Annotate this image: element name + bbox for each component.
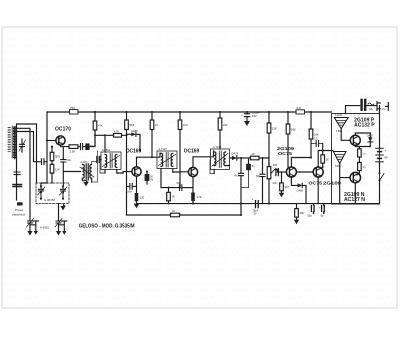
svg-text:1K: 1K: [252, 152, 255, 156]
node R18 out: [261, 157, 263, 159]
svg-text:100μF: 100μF: [252, 111, 260, 115]
resistor R1 750 (in line on bus): [70, 106, 79, 114]
capacitor C16: [256, 158, 265, 204]
wire pot top: [263, 158, 270, 167]
svg-text:G.307/M: G.307/M: [44, 198, 55, 202]
ground (right trimmer): [56, 231, 61, 236]
node R21/Q5: [322, 166, 324, 168]
wire MF2 secondary to Q3 base: [173, 171, 189, 173]
svg-text:RL: RL: [370, 107, 374, 111]
svg-text:4,7K: 4,7K: [114, 130, 120, 134]
wire battery rail top: [379, 106, 381, 204]
svg-text:4,7K: 4,7K: [196, 195, 202, 199]
capacitor C18 coupling: [273, 169, 287, 185]
resistor R19: [280, 172, 290, 193]
svg-text:2,3K: 2,3K: [70, 149, 76, 153]
wire Q5 emitter: [317, 177, 319, 204]
svg-text:OA85: OA85: [131, 129, 138, 133]
svg-text:750: 750: [70, 106, 75, 110]
capacitor C11: [127, 184, 137, 194]
resistor R22: [358, 149, 366, 163]
svg-text:1K: 1K: [172, 209, 175, 213]
ground (R20): [294, 220, 299, 225]
wire bottom bus (audio common): [241, 203, 380, 205]
capacitor C8 (solid): [85, 143, 95, 150]
diode D1 OA85: [127, 129, 141, 151]
resistor R9: [50, 161, 60, 183]
svg-text:2G109: 2G109: [277, 146, 294, 152]
capacitor C23 (osc to MF1): [97, 157, 101, 163]
transistor Q5 2G109: [313, 167, 323, 177]
svg-text:0,5: 0,5: [314, 138, 318, 141]
svg-text:A.7128: A.7128: [213, 145, 222, 149]
svg-text:15K: 15K: [272, 127, 277, 131]
ground (Q2 emitter): [134, 204, 140, 209]
resistor R23: [358, 162, 366, 173]
node base OC170: [46, 140, 48, 142]
transistor Q1 OC170: [56, 136, 65, 145]
IF transformer MF1: [101, 135, 121, 173]
variable capacitor CV2: [60, 185, 68, 200]
capacitor C14 100uF electrolytic to ground: [241, 111, 260, 122]
transistor Q6 AC132: [350, 135, 360, 145]
svg-text:3V: 3V: [150, 179, 153, 182]
resistor R18 1K (in line): [241, 152, 263, 160]
svg-text:3K9: 3K9: [55, 155, 60, 159]
capacitor C10 (solid): [145, 172, 154, 185]
svg-text:+: +: [252, 197, 254, 201]
tuning gang box (dashed): [36, 183, 69, 204]
ground (left trimmer): [27, 231, 32, 236]
svg-text:+: +: [384, 149, 386, 153]
svg-text:OC169: OC169: [184, 148, 200, 154]
resistor R10 4.7K: [114, 130, 122, 138]
resistor R15 220: [135, 193, 145, 204]
resistor R21: [321, 144, 329, 168]
svg-text:OA85: OA85: [297, 190, 304, 193]
svg-text:50n: 50n: [177, 181, 182, 185]
node AGC: [94, 134, 96, 136]
label 2G109P/AC132P: [354, 117, 375, 128]
ground (C14): [244, 121, 250, 126]
transistor Q4 OC75: [286, 167, 296, 177]
wire T3 to Q7 base: [340, 164, 350, 204]
node MF1 top: [104, 134, 106, 136]
svg-text:5K6: 5K6: [130, 123, 135, 127]
node C13/common: [240, 203, 242, 205]
wire pot bottom: [268, 179, 270, 204]
svg-text:2μF: 2μF: [273, 182, 278, 185]
battery B1 9V: [376, 148, 388, 162]
svg-text:9V: 9V: [384, 156, 388, 160]
resistor R14 0.5 (in line on bus): [296, 106, 305, 114]
wire MF1 primary bottom to AGC: [100, 156, 105, 173]
wire base Q1: [47, 140, 56, 142]
capacitor C5 trimmer + C6 (right): [55, 210, 67, 231]
svg-text:12K: 12K: [55, 168, 60, 172]
transistor Q3 OC169: [188, 167, 197, 176]
capacitor C21 electrolytic: [319, 204, 324, 218]
IF transformer MF2: [157, 147, 177, 172]
ground (left padder): [34, 231, 38, 235]
label presa d'antenna: [12, 208, 25, 216]
node dots on bus: [94, 111, 312, 113]
wire MF2 bottom left down: [160, 172, 162, 188]
resistor R4 1K: [150, 112, 158, 158]
node (R8/R9): [51, 146, 53, 148]
svg-text:1K: 1K: [326, 158, 329, 162]
resistor R24 1K (in line): [171, 209, 180, 217]
wire Q3 collector to MF3: [193, 151, 214, 167]
svg-text:AC132 P: AC132 P: [354, 123, 375, 129]
svg-text:+: +: [241, 113, 243, 117]
resistor R5 1.5K: [178, 112, 188, 188]
capacitor C15 (solid): [241, 158, 255, 188]
svg-text:AC127 N: AC127 N: [344, 197, 365, 203]
svg-text:OC170: OC170: [55, 127, 71, 133]
node pot/common: [268, 203, 270, 205]
wire Q4/Q5 coupling: [296, 171, 313, 173]
capacitor C3 trimmer + C4 padder (left): [27, 219, 39, 232]
capacitor C13 on rail: [235, 158, 244, 204]
wire AGC row: [95, 134, 127, 136]
capacitor C19: [311, 138, 323, 147]
svg-text:220: 220: [140, 195, 145, 199]
ground (R19): [279, 193, 284, 198]
node collector/R13: [310, 156, 312, 158]
capacitor C1 trimmer on antenna: [19, 139, 26, 152]
wire rail x47: [41, 112, 47, 186]
svg-text:GELOSO - MOD. G.3535/M: GELOSO - MOD. G.3535/M: [79, 223, 135, 229]
wire Q6 emitter/bias: [355, 133, 370, 149]
transistor Q7 AC127: [350, 172, 360, 182]
wire module top feed: [346, 106, 378, 114]
variable capacitor CV1: [38, 185, 46, 200]
svg-text:0,5: 0,5: [297, 106, 302, 110]
wire Q3 emitter: [192, 177, 194, 193]
svg-text:1K: 1K: [172, 195, 175, 199]
svg-text:50μ: 50μ: [308, 215, 313, 218]
capacitor C2 (osc coupling): [34, 159, 48, 165]
wire antenna tap: [14, 132, 34, 160]
capacitor C7: [81, 144, 83, 150]
wire antenna top link: [17, 124, 37, 183]
earphone jack J1: [377, 102, 388, 112]
svg-text:100: 100: [300, 211, 305, 215]
svg-text:220: 220: [223, 123, 228, 127]
capacitor C20 electrolytic: [308, 204, 315, 218]
output module box: [332, 114, 380, 205]
resistor R7 2.3K: [69, 145, 78, 154]
svg-text:d'antenna: d'antenna: [12, 212, 25, 216]
svg-text:1K: 1K: [155, 123, 158, 127]
svg-text:3V: 3V: [254, 212, 257, 215]
capacitor C9 below Q1: [61, 147, 81, 185]
capacitor C17 electrolytic on common: [252, 197, 259, 215]
resistor R12: [286, 112, 296, 168]
node lower bus: [240, 214, 242, 216]
diode D2 OA79: [230, 152, 242, 161]
wire MF3 bottom pin: [210, 160, 214, 174]
svg-text:OC75: OC75: [278, 151, 292, 157]
resistor R6 220: [218, 112, 228, 149]
svg-text:A.7127: A.7127: [159, 147, 168, 151]
transistor Q2 OC169: [132, 167, 141, 176]
node (AGC rail): [125, 134, 127, 136]
transformer T2 driver (triangle): [334, 114, 348, 133]
label 2G109N/AC127N: [344, 192, 365, 203]
svg-text:12V: 12V: [252, 114, 257, 118]
svg-text:1K5: 1K5: [183, 123, 188, 127]
diode D4: [367, 133, 374, 147]
resistor R17 4.7K: [191, 193, 202, 204]
potentiometer P1 10K volume: [267, 163, 277, 179]
wire MF1 secondary to Q2 base: [117, 172, 132, 173]
svg-text:OA79: OA79: [231, 152, 238, 156]
switch S1: [378, 172, 384, 181]
wire T2 to Q6 base: [341, 129, 350, 141]
capacitor C22 output electrolytic (solid): [360, 99, 374, 111]
wire Q2 emitter: [136, 176, 138, 193]
resistor R11 15K (to volume pot): [267, 112, 277, 167]
svg-text:OC169: OC169: [126, 148, 142, 154]
svg-text:56K: 56K: [291, 128, 296, 132]
capacitor C12: [161, 181, 193, 190]
resistor R16 1K: [167, 188, 175, 204]
resistor R20: [295, 204, 305, 220]
label 2G109/OC75: [277, 146, 294, 157]
svg-text:10n: 10n: [67, 158, 72, 162]
wire top supply bus: [47, 111, 332, 113]
wire emitter row Q1: [61, 130, 96, 147]
wire emitter common row: [137, 203, 242, 205]
svg-text:A.6001: A.6001: [40, 226, 49, 230]
wire lower return bus: [127, 204, 242, 215]
wire Q7 emitter down: [355, 173, 359, 204]
capacitor C24 on rod: [14, 172, 20, 175]
svg-text:50n: 50n: [128, 190, 133, 194]
node (R16 top): [167, 187, 169, 189]
svg-text:10K: 10K: [273, 163, 278, 167]
wire Q4 collector: [291, 158, 311, 168]
svg-text:10K: 10K: [314, 133, 319, 137]
svg-text:T.AC32: T.AC32: [335, 114, 344, 117]
node detector out: [240, 157, 242, 159]
resistor R2 470: [93, 112, 103, 147]
diode D3 bias: [291, 177, 306, 204]
node (C12 to R5 rail): [179, 187, 181, 189]
svg-text:OC75: OC75: [309, 181, 323, 187]
ground (right padder): [62, 231, 66, 235]
svg-text:1m: 1m: [382, 107, 387, 111]
resistor R3 5.6K on AGC rail: [125, 112, 135, 215]
svg-text:4n7: 4n7: [235, 175, 240, 178]
svg-text:47K: 47K: [98, 124, 103, 128]
wire gang CV2 to trimmer: [58, 204, 60, 211]
node (emitter row): [192, 203, 194, 205]
transformer T3 driver (triangle): [333, 152, 346, 168]
svg-text:50n: 50n: [90, 144, 95, 148]
resistor R13: [309, 112, 319, 158]
svg-text:50n: 50n: [256, 175, 261, 178]
wire Q2 collector to MF2: [137, 153, 161, 167]
antenna L1 ferrite rod coil: [8, 124, 23, 206]
wire osc feedback: [92, 151, 98, 182]
ground (T1): [83, 181, 88, 187]
IF transformer MF3: [211, 145, 230, 173]
node (Q2 base/cap): [146, 170, 148, 172]
svg-text:4K7: 4K7: [285, 185, 290, 189]
resistor R8 3.9K: [50, 147, 60, 161]
label OC75 2G109: [309, 181, 342, 187]
wire antenna to gang: [14, 128, 30, 219]
oscillator transformer T1: [80, 160, 94, 182]
svg-text:2G109: 2G109: [323, 181, 341, 187]
ground (gang): [60, 204, 65, 211]
wire Q5 collector: [318, 151, 333, 168]
svg-text:A.7561: A.7561: [102, 148, 111, 152]
